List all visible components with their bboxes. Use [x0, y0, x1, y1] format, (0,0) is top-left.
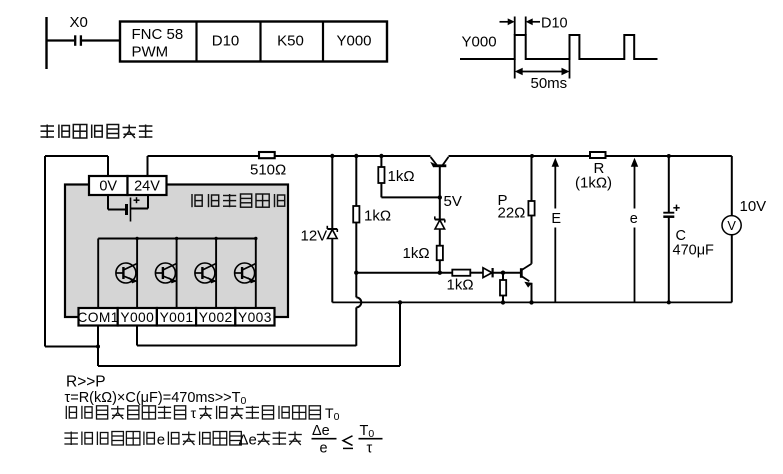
svg-text:X0: X0 [70, 14, 88, 31]
svg-text:22Ω: 22Ω [498, 205, 526, 222]
diode D1 [483, 268, 493, 278]
svg-text:COM1: COM1 [77, 310, 118, 325]
collector wire to P resistor [531, 216, 533, 264]
COM1 drop wire [97, 326, 99, 367]
wire resistor to diode [470, 272, 483, 274]
svg-text:τ: τ [367, 441, 373, 457]
junction dots bottom [398, 300, 402, 304]
output transistor Q3 [195, 237, 218, 308]
svg-text:τ: τ [191, 405, 197, 421]
svg-text:(1kΩ): (1kΩ) [575, 175, 612, 192]
svg-text:D10: D10 [212, 33, 240, 50]
svg-text:τ=R(kΩ)×C(μF)=470ms>>T0: τ=R(kΩ)×C(μF)=470ms>>T0 [65, 390, 247, 407]
PLC name label 可编程控制器 (pseudo glyphs) [192, 194, 285, 207]
terminal 0V [89, 176, 128, 195]
resistor 1k top branch wire [380, 156, 382, 167]
zener diode 5V [435, 216, 445, 229]
internal emitter bus [98, 238, 256, 240]
top rail 24V [148, 155, 431, 157]
left wire to COM1 riser [45, 346, 98, 348]
junction dots top rail [330, 154, 334, 158]
base drive wire [356, 272, 452, 274]
terminal COM1 [77, 308, 118, 326]
svg-text:Y002: Y002 [199, 310, 233, 325]
wire bus to COM1 [97, 239, 99, 309]
resistor 1k (middle branch) [353, 206, 359, 223]
svg-text:T0: T0 [325, 405, 340, 423]
emitter wire to bottom rail [531, 283, 533, 303]
voltage arrow e [631, 158, 638, 303]
bottom rail [332, 301, 732, 303]
voltmeter branch wire [731, 156, 733, 216]
wire diode to NPN base [493, 272, 521, 274]
wire to 5V node [381, 196, 439, 198]
50ms period marker extensions [515, 59, 570, 79]
capacitor C 470uF [663, 156, 679, 302]
svg-text:0V: 0V [99, 179, 117, 195]
svg-text:470μF: 470μF [673, 243, 715, 259]
terminal Y002 [196, 308, 235, 326]
svg-text:PWM: PWM [132, 44, 169, 61]
terminal Y003 [235, 308, 274, 326]
svg-text:V: V [727, 218, 736, 233]
svg-text:50ms: 50ms [531, 75, 568, 92]
svg-text:Y000: Y000 [462, 34, 497, 51]
Y000 wire to filter input [137, 345, 356, 347]
resistor 1k (horizontal) [452, 270, 470, 276]
svg-text:K50: K50 [277, 33, 304, 50]
timing waveform [460, 35, 658, 59]
transistor PNP (pass) [430, 157, 448, 198]
zener diode 12V [327, 226, 337, 239]
battery (service power supply) [108, 195, 148, 222]
50ms double arrow [515, 68, 570, 76]
svg-text:e: e [157, 432, 165, 449]
zener diode 12V branch wire [331, 156, 333, 229]
ladder left power rail [45, 17, 47, 69]
svg-text:1kΩ: 1kΩ [447, 277, 474, 294]
svg-text:5V: 5V [444, 193, 462, 210]
note line 3 (CJK) 滤波器的时间常数τ要远大于脉冲周期T0 [66, 406, 185, 419]
resistor 1k (top branch) [378, 167, 384, 183]
svg-text:Y000: Y000 [336, 33, 371, 50]
terminal Y000 [118, 308, 157, 326]
resistor 510ohm [259, 152, 275, 158]
svg-text:510Ω: 510Ω [250, 162, 286, 179]
voltage arrow E [552, 158, 559, 303]
voltmeter V [722, 216, 741, 235]
svg-text:1kΩ: 1kΩ [403, 245, 430, 262]
svg-text:24V: 24V [134, 179, 160, 195]
wire with hop over bottom rail [355, 273, 357, 298]
svg-text:FNC 58: FNC 58 [132, 26, 184, 43]
transistor NPN output [521, 264, 532, 288]
instruction box FNC 58 PWM [120, 22, 387, 62]
svg-text:e: e [630, 211, 638, 227]
resistor R 1k on rail [590, 152, 606, 158]
output transistor Q1 [116, 237, 139, 308]
wire 24V riser to top rail [147, 156, 149, 176]
COM1 bottom wire to riser [98, 365, 400, 367]
resistor 1k (5V branch) [437, 246, 443, 261]
output transistor Q2 [155, 237, 178, 308]
left outer wire down [44, 156, 46, 347]
svg-text:Δe: Δe [312, 423, 330, 439]
svg-text:Y003: Y003 [238, 310, 272, 325]
resistor pull-down at NPN base [502, 273, 504, 280]
svg-text:12V: 12V [301, 227, 328, 244]
svg-text:T0: T0 [360, 423, 375, 440]
top rail segment from left wire to 0V [45, 155, 108, 157]
pulse width marker edge extensions [515, 17, 526, 36]
output transistor Q4 [235, 237, 258, 308]
terminal 24V [128, 176, 167, 195]
svg-text:e: e [320, 441, 328, 457]
Y000 drop wire [136, 326, 138, 346]
terminal Y001 [157, 308, 196, 326]
wire 0V riser to top rail [107, 156, 109, 176]
svg-text:D10: D10 [541, 16, 568, 32]
note line 4 (CJK) 平均输出电流e中的波动值Δe大概为 [64, 432, 154, 446]
resistor P 22ohm [528, 201, 534, 216]
svg-text:Δe: Δe [239, 432, 257, 449]
resistor 1k upper-left branch wire [355, 156, 357, 206]
svg-text:10V: 10V [740, 198, 767, 215]
svg-text:Y001: Y001 [160, 310, 194, 325]
svg-text:1kΩ: 1kΩ [364, 208, 391, 225]
contact X0 [47, 35, 121, 46]
svg-text:R>>P: R>>P [66, 373, 106, 390]
less-or-equal sign [343, 436, 353, 449]
svg-text:E: E [551, 211, 561, 227]
svg-text:1kΩ: 1kΩ [388, 168, 415, 185]
svg-text:Y000: Y000 [120, 310, 154, 325]
D10 width arrows [500, 18, 541, 25]
PLC gray box 可编程控制器 [65, 185, 288, 318]
title 平滑回路的例子 [41, 125, 153, 139]
